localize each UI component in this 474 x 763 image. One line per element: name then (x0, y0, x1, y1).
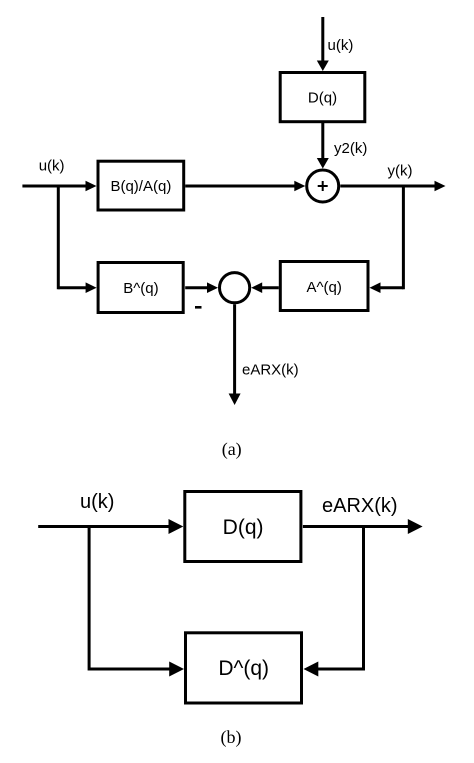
svg-text:D(q): D(q) (223, 516, 264, 539)
svg-text:A^(q): A^(q) (307, 279, 342, 296)
wire: left input (22, 181, 96, 192)
svg-text:u(k): u(k) (80, 491, 114, 513)
summing junction + (307, 170, 339, 202)
svg-text:B(q)/A(q): B(q)/A(q) (110, 178, 171, 195)
wire: output eARX(k) (b) (303, 519, 423, 534)
svg-text:(b): (b) (221, 727, 242, 748)
wire: D(q) to summing junction (317, 123, 329, 169)
wire: branch down from input (58, 186, 96, 293)
wire: eARX(k) output down (229, 304, 241, 405)
block A^(q) (280, 262, 368, 311)
block B(q)/A(q) (98, 161, 184, 210)
svg-text:D(q): D(q) (308, 90, 337, 107)
wire: feedback branch from output (370, 186, 404, 293)
svg-text:u(k): u(k) (328, 37, 354, 54)
svg-text:B^(q): B^(q) (123, 280, 158, 297)
svg-text:u(k): u(k) (39, 158, 65, 175)
block B^(q) (98, 263, 183, 313)
wire: top input into D(q) (317, 17, 329, 71)
wire: output y(k) (340, 181, 445, 192)
block D(q) (a) (280, 73, 365, 122)
block D(q) (b) (185, 492, 301, 562)
wire: left branch down to D^(q) (89, 527, 184, 677)
svg-text:(a): (a) (222, 439, 242, 460)
minus sign (195, 306, 202, 309)
wire: B^(q) to lower junction (185, 282, 218, 293)
lower summing junction (220, 273, 250, 303)
svg-text:y2(k): y2(k) (334, 140, 367, 157)
wire: B(q)/A(q) to summing junction (185, 181, 305, 192)
wire: input (b) (38, 519, 183, 534)
wire: right branch down to D^(q) (304, 527, 364, 677)
svg-text:eARX(k): eARX(k) (242, 362, 299, 379)
wire: A^(q) to lower junction (251, 282, 279, 293)
svg-text:y(k): y(k) (388, 163, 413, 180)
block D^(q) (186, 633, 302, 703)
svg-text:eARX(k): eARX(k) (322, 495, 398, 517)
svg-text:D^(q): D^(q) (218, 657, 269, 680)
